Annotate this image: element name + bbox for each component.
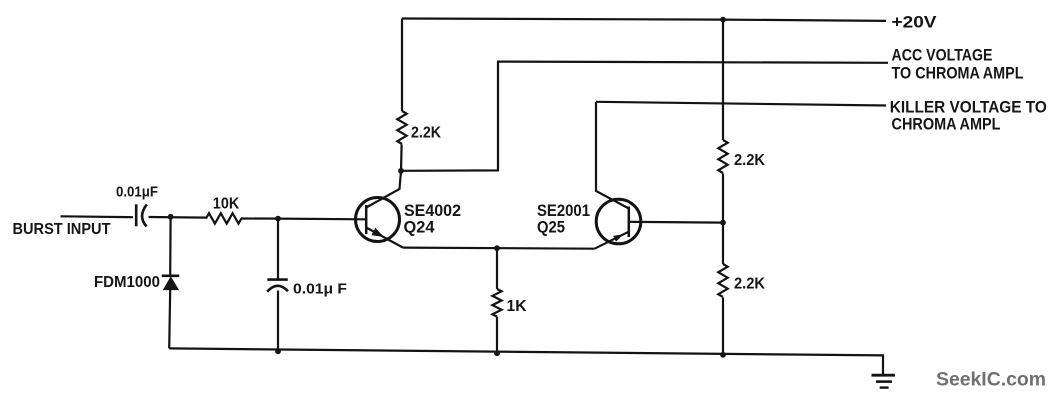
svg-text:SeekIC.com: SeekIC.com: [936, 368, 1046, 390]
transistor Q25 circle: [596, 199, 641, 244]
wire top +20V rail: [402, 19, 886, 21]
node bottom 1K: [494, 350, 500, 356]
ground bar 1: [872, 374, 896, 377]
svg-text:SE4002: SE4002: [404, 202, 461, 220]
node collector Q24: [398, 168, 404, 174]
transistor Q25 emitter arrow: [613, 234, 623, 241]
svg-text:TO CHROMA AMPL: TO CHROMA AMPL: [892, 64, 1024, 83]
node Q25 base junction: [720, 220, 726, 226]
wire cap2 to bottom: [277, 291, 279, 352]
wire between right resistors: [722, 174, 724, 265]
node emitter junction: [494, 245, 500, 251]
capacitor C2 straight plate: [267, 278, 287, 281]
capacitor C2 curved plate: [267, 286, 288, 292]
wire 1K to bottom: [496, 317, 498, 353]
transistor Q25 base bar: [628, 207, 631, 238]
svg-text:2.2K: 2.2K: [734, 276, 765, 293]
wire ACC: node right then up then right to label: [401, 62, 888, 171]
resistor 1K upper wire: [496, 248, 498, 289]
diode FDM1000 cathode bar: [162, 274, 179, 277]
wire burst input: [61, 215, 134, 218]
transistor Q25 collector: [596, 102, 629, 209]
svg-text:+20V: +20V: [892, 13, 938, 32]
resistor 2.2K upper right zigzag: [718, 140, 727, 173]
node bottom cap2: [275, 348, 281, 354]
capacitor C1 0.01uF right curved plate: [142, 205, 147, 227]
transistor Q24 collector: [366, 171, 401, 208]
svg-text:1K: 1K: [507, 298, 527, 315]
svg-text:FDM1000: FDM1000: [94, 274, 160, 291]
diode FDM1000 upper wire: [169, 217, 172, 275]
wire diode to bottom: [169, 289, 170, 348]
resistor 2.2K collector Q24 zigzag: [397, 111, 406, 144]
transistor Q24 emitter: [366, 228, 403, 248]
transistor Q25 emitter: [595, 232, 629, 249]
wire 10K to cap2 node: [241, 217, 278, 219]
svg-text:0.01μ F: 0.01μ F: [293, 282, 347, 298]
svg-text:BURST INPUT: BURST INPUT: [13, 221, 111, 238]
ground bar 2: [876, 380, 892, 383]
svg-text:Q24: Q24: [404, 219, 436, 237]
diode FDM1000 triangle: [164, 277, 179, 289]
transistor Q24 emitter arrow: [371, 228, 384, 237]
node cap2 junction: [275, 216, 281, 222]
svg-text:ACC VOLTAGE: ACC VOLTAGE: [892, 46, 993, 65]
wire right rail top: [722, 20, 724, 140]
svg-text:10K: 10K: [213, 196, 240, 213]
svg-text:0.01μF: 0.01μF: [116, 185, 158, 201]
transistor Q24 circle: [356, 198, 400, 242]
node diode junction: [168, 214, 174, 220]
wire 2.2K to collector node: [400, 145, 403, 172]
wire bottom rail: [169, 348, 883, 374]
resistor 1K zigzag: [492, 289, 501, 317]
transistor Q25 base wire to divider: [629, 221, 723, 224]
svg-text:Q25: Q25: [537, 219, 565, 237]
node +20V junction: [720, 17, 726, 23]
wire KILLER to label: [596, 102, 886, 106]
svg-text:2.2K: 2.2K: [734, 152, 765, 169]
wire common emitters: [403, 248, 595, 249]
node bottom right rail: [720, 352, 726, 358]
wire node to Q24 base: [278, 218, 365, 221]
capacitor C2 upper wire: [277, 219, 279, 279]
wire cap to diode node: [149, 216, 207, 219]
wire lower right resistor to bottom: [722, 298, 724, 355]
svg-text:CHROMA AMPL: CHROMA AMPL: [892, 114, 1001, 133]
svg-text:SE2001: SE2001: [537, 202, 590, 220]
ground bar 3: [880, 386, 889, 388]
svg-text:2.2K: 2.2K: [411, 125, 441, 142]
resistor 10K: [206, 213, 241, 223]
resistor 2.2K lower right zigzag: [718, 264, 727, 297]
transistor Q24 base bar: [365, 205, 368, 234]
resistor 2.2K collector Q24 vertical from top: [401, 19, 403, 112]
capacitor C1 0.01uF left plate: [135, 204, 138, 226]
